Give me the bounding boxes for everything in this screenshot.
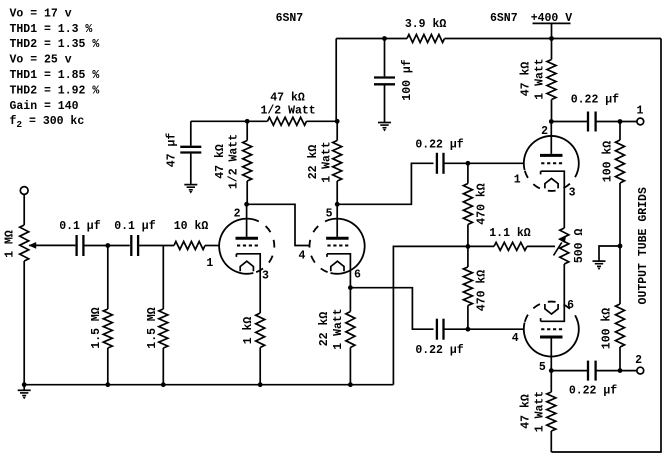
resistor 47 kΩ 1/2 Watt (decoupling) bbox=[260, 91, 315, 125]
svg-text:3.9 kΩ: 3.9 kΩ bbox=[405, 18, 447, 31]
node D junction (470k center) bbox=[466, 244, 471, 249]
tube V3 envelope bbox=[524, 136, 579, 191]
tube V3 plate bbox=[540, 122, 563, 156]
resistor 100 kΩ (upper) bbox=[602, 140, 625, 183]
svg-text:1: 1 bbox=[514, 174, 521, 187]
wire 22k cathode top bbox=[349, 288, 351, 312]
wire V4 plate load top bbox=[550, 371, 552, 392]
svg-text:100 kΩ: 100 kΩ bbox=[602, 141, 615, 183]
ground (input rail) bbox=[18, 385, 31, 400]
node pin 6 label V4 bbox=[567, 299, 574, 312]
ground (47 µf) bbox=[184, 154, 197, 194]
svg-text:Vo = 17 v: Vo = 17 v bbox=[10, 7, 72, 20]
wire V4 plate load bottom bbox=[550, 431, 552, 452]
svg-text:3: 3 bbox=[262, 270, 269, 283]
svg-text:THD2 = 1.92 %: THD2 = 1.92 % bbox=[10, 84, 100, 97]
wire 47k to B+ branch bbox=[307, 120, 338, 122]
tube V4 cathode bbox=[541, 264, 565, 321]
wire 1 kΩ to ground rail bbox=[259, 348, 261, 385]
capacitor 0.22 µf C3 bbox=[415, 138, 463, 173]
svg-text:1: 1 bbox=[637, 105, 644, 118]
resistor 22 kΩ 1 Watt (V2 plate load) bbox=[307, 141, 342, 183]
wire 47k to junction bbox=[247, 120, 267, 122]
wire 1.5 MΩ second to ground rail bbox=[162, 348, 164, 385]
svg-text:OUTPUT TUBE GRIDS: OUTPUT TUBE GRIDS bbox=[637, 187, 650, 304]
svg-text:0.22 µf: 0.22 µf bbox=[569, 385, 617, 398]
resistor 1.5 MΩ (second) bbox=[146, 307, 168, 349]
wire 100k upper top bbox=[619, 122, 621, 141]
svg-text:1 Watt: 1 Watt bbox=[321, 141, 334, 182]
node V3 plate junction bbox=[549, 119, 554, 124]
resistor 1.1 kΩ (hum balance feed) bbox=[489, 227, 531, 250]
wire V1 plate load top bbox=[246, 121, 248, 140]
wire 22k top bbox=[336, 121, 338, 140]
capacitor 100 µf bbox=[374, 39, 414, 101]
svg-text:4: 4 bbox=[298, 249, 305, 262]
svg-text:22 kΩ: 22 kΩ bbox=[307, 145, 320, 180]
node pin 4 label V2 bbox=[298, 249, 305, 262]
node C junction bbox=[466, 161, 471, 166]
node pin 6 label V2 bbox=[354, 269, 361, 282]
svg-text:0.1 µf: 0.1 µf bbox=[59, 220, 101, 233]
svg-text:0.22 µf: 0.22 µf bbox=[415, 138, 463, 151]
svg-text:470 kΩ: 470 kΩ bbox=[475, 270, 488, 312]
svg-text:1 Watt: 1 Watt bbox=[534, 58, 547, 99]
potentiometer 1 MΩ (volume control) bbox=[4, 225, 29, 261]
potentiometer 500 Ω bbox=[560, 228, 586, 264]
wire right B+ rail bbox=[551, 39, 661, 453]
node pot wiper arrow bbox=[29, 242, 37, 249]
node pin 2 label V3 bbox=[541, 125, 548, 138]
wire 1.1 kΩ to wiper bbox=[527, 245, 555, 247]
svg-text:100 µf: 100 µf bbox=[401, 59, 414, 101]
node V1 plate junction bbox=[244, 202, 249, 207]
resistor 3.9 kΩ (supply dropping) bbox=[405, 18, 447, 42]
svg-text:22 kΩ: 22 kΩ bbox=[318, 312, 331, 347]
node A junction dot bbox=[105, 243, 110, 248]
tube V4 plate bbox=[540, 337, 563, 371]
svg-text:47 kΩ: 47 kΩ bbox=[520, 394, 533, 429]
node ground rail dots bbox=[22, 382, 353, 387]
capacitor 0.22 µf C4 bbox=[415, 319, 463, 357]
svg-text:THD1 = 1.85 %: THD1 = 1.85 % bbox=[10, 69, 100, 82]
svg-text:6: 6 bbox=[567, 299, 574, 312]
svg-text:1.5 MΩ: 1.5 MΩ bbox=[90, 307, 103, 349]
svg-text:2: 2 bbox=[635, 354, 642, 367]
wire node D to 1.1 kΩ bbox=[468, 245, 494, 247]
node performance-spec text block bbox=[10, 7, 100, 130]
capacitor 0.1 µf C2 bbox=[114, 220, 156, 256]
wire top rail right bbox=[445, 38, 662, 40]
node output junction 2 bbox=[618, 368, 623, 373]
wire pot bottom to ground rail bbox=[23, 261, 25, 385]
capacitor 47 µf bbox=[166, 121, 202, 167]
svg-text:47 µf: 47 µf bbox=[166, 133, 179, 168]
tube V3 heater bbox=[545, 178, 558, 188]
svg-text:1.1 kΩ: 1.1 kΩ bbox=[489, 227, 531, 240]
wire input terminal to pot bbox=[23, 194, 25, 225]
node pin 3 label V1 bbox=[262, 270, 269, 283]
tube V1 grid (dashed) bbox=[237, 245, 258, 247]
svg-text:1.5 MΩ: 1.5 MΩ bbox=[146, 307, 159, 349]
node V4 plate junction bbox=[549, 368, 554, 373]
wire C6 to terminal 2 bbox=[596, 370, 637, 372]
wire C4 to node E bbox=[444, 328, 468, 330]
resistor 22 kΩ 1 Watt (V2 cathode) bbox=[318, 308, 355, 349]
wire V1 plate to V2 grid bbox=[247, 204, 310, 245]
node output junction 1 bbox=[618, 119, 623, 124]
wire C2 to node B bbox=[139, 245, 174, 247]
tube V1 heater bbox=[240, 261, 253, 271]
node 500 Ω wiper arrow bbox=[554, 235, 567, 255]
tube V1 cathode bbox=[236, 254, 260, 313]
svg-text:0.1 µf: 0.1 µf bbox=[114, 220, 156, 233]
wire 100k lower bottom bbox=[619, 347, 621, 371]
wire node B down to second 1.5 MΩ bbox=[162, 246, 164, 310]
svg-text:6SN7: 6SN7 bbox=[276, 12, 304, 25]
resistor 1.5 MΩ (first) bbox=[90, 307, 112, 349]
wire V3 plate load bottom bbox=[551, 100, 553, 122]
svg-text:2: 2 bbox=[234, 207, 241, 220]
tube V1 plate bbox=[236, 204, 259, 238]
node ground junction (100k center) bbox=[618, 244, 623, 249]
svg-text:47 kΩ: 47 kΩ bbox=[520, 62, 533, 97]
node pin 1 label V1 bbox=[206, 257, 213, 270]
wire top rail left bbox=[336, 38, 407, 40]
resistor 47 kΩ 1 Watt (V3 plate load) bbox=[520, 58, 556, 99]
svg-text:100 kΩ: 100 kΩ bbox=[601, 308, 614, 350]
resistor 47 kΩ 1/2 Watt (V1 plate load) bbox=[214, 134, 252, 189]
wire V4 plate to C6 bbox=[551, 370, 588, 372]
tube V2 envelope bbox=[309, 219, 364, 274]
node pin 1 label V3 bbox=[514, 174, 521, 187]
node +400 V junction bbox=[549, 36, 554, 41]
node input terminal bbox=[20, 187, 28, 195]
wire V2 cathode to C4 bbox=[350, 288, 433, 330]
svg-text:1/2 Watt: 1/2 Watt bbox=[260, 105, 315, 118]
svg-text:500 Ω: 500 Ω bbox=[573, 229, 586, 264]
wire V3 plate to C5 bbox=[551, 121, 588, 123]
svg-text:6: 6 bbox=[354, 269, 361, 282]
wire wiper to C1 bbox=[35, 244, 75, 246]
svg-text:THD1 = 1.3 %: THD1 = 1.3 % bbox=[10, 23, 93, 36]
svg-text:Vo = 25 v: Vo = 25 v bbox=[10, 54, 72, 67]
ground (100 µf) bbox=[378, 85, 391, 131]
svg-text:10 kΩ: 10 kΩ bbox=[174, 220, 209, 233]
wire C5 to terminal 1 bbox=[596, 121, 637, 123]
wire 470k upper bottom bbox=[467, 225, 469, 247]
node pin 5 label V4 bbox=[539, 361, 546, 374]
svg-text:6SN7: 6SN7 bbox=[490, 12, 518, 25]
svg-text:1 Watt: 1 Watt bbox=[332, 308, 345, 349]
node +400 V supply label bbox=[531, 12, 573, 25]
wire V1 plate load bottom bbox=[246, 181, 248, 204]
svg-text:470 kΩ: 470 kΩ bbox=[475, 183, 488, 225]
node terminal 2 bbox=[635, 354, 644, 374]
tube V2 heater bbox=[331, 261, 344, 271]
node OUTPUT TUBE GRIDS label bbox=[637, 187, 650, 304]
ground (output divider) bbox=[593, 246, 621, 270]
node terminal 1 bbox=[637, 105, 644, 125]
wire 470k upper top bbox=[467, 163, 469, 183]
wire 470k lower bottom bbox=[467, 306, 469, 330]
resistor 47 kΩ 1 Watt (V4 plate load) bbox=[520, 391, 556, 432]
tube V1 envelope bbox=[219, 219, 274, 274]
capacitor 0.22 µf C5 (output 1) bbox=[571, 94, 619, 132]
node V2 plate junction bbox=[335, 202, 340, 207]
node E junction bbox=[466, 327, 471, 332]
capacitor 0.1 µf C1 bbox=[59, 220, 101, 256]
wire V2 plate to C3 bbox=[337, 163, 433, 204]
wire 100k upper bottom bbox=[619, 183, 621, 246]
svg-text:1 Watt: 1 Watt bbox=[534, 391, 547, 432]
node pin 3 label V3 bbox=[569, 187, 576, 200]
svg-text:0.22 µf: 0.22 µf bbox=[571, 94, 619, 107]
wire node E to lower output grid bbox=[468, 328, 524, 330]
wire C3 to node C bbox=[444, 162, 468, 164]
svg-text:1 kΩ: 1 kΩ bbox=[242, 317, 255, 345]
svg-text:1/2 Watt: 1/2 Watt bbox=[228, 134, 241, 189]
node label 6SN7 (output pair) bbox=[490, 12, 518, 25]
resistor 10 kΩ grid stopper bbox=[174, 220, 209, 249]
wire 470k lower top bbox=[467, 246, 469, 267]
node label 6SN7 (driver twin triode) bbox=[276, 12, 304, 25]
node pin 4 label V4 bbox=[512, 332, 519, 345]
svg-text:1 MΩ: 1 MΩ bbox=[4, 230, 17, 258]
tube V4 grid (dashed) bbox=[541, 328, 562, 330]
tube V3 grid (dashed) bbox=[541, 162, 562, 164]
resistor 470 kΩ (lower grid leak) bbox=[463, 267, 488, 311]
svg-text:2: 2 bbox=[541, 125, 548, 138]
wire 10 kΩ to tube V1 grid pin 1 bbox=[205, 245, 219, 247]
wire 1.5 MΩ first to ground rail bbox=[107, 348, 109, 385]
svg-text:THD2 = 1.35 %: THD2 = 1.35 % bbox=[10, 38, 100, 51]
wire node C to upper output grid bbox=[468, 162, 524, 164]
svg-text:4: 4 bbox=[512, 332, 519, 345]
node pin 2 label V1 bbox=[234, 207, 241, 220]
svg-text:5: 5 bbox=[539, 361, 546, 374]
tube V4 heater bbox=[545, 304, 558, 314]
node junction 47k/22k bbox=[335, 119, 340, 124]
wire 100k lower top bbox=[619, 246, 621, 304]
wire junction to 47 µf bbox=[191, 120, 247, 122]
capacitor 0.22 µf C6 (output 2) bbox=[569, 361, 617, 398]
node V2 cathode junction bbox=[348, 285, 353, 290]
wire 22k cathode bottom bbox=[349, 348, 351, 385]
svg-text:0.22 µf: 0.22 µf bbox=[415, 344, 463, 357]
svg-text:Gain = 140: Gain = 140 bbox=[10, 100, 79, 113]
wire C1 to node A bbox=[85, 245, 130, 247]
svg-text:47 kΩ: 47 kΩ bbox=[214, 144, 227, 179]
tube V3 cathode bbox=[541, 171, 565, 228]
svg-text:47 kΩ: 47 kΩ bbox=[270, 91, 305, 104]
node pin 5 label V2 bbox=[326, 207, 333, 220]
wire V3 plate load top bbox=[551, 39, 553, 60]
resistor 470 kΩ (upper grid leak) bbox=[463, 183, 488, 225]
wire +400 V stub bbox=[551, 23, 553, 38]
wire node A down to R 1.5 MΩ bbox=[107, 246, 109, 310]
svg-text:1: 1 bbox=[206, 257, 213, 270]
tube V2 plate bbox=[326, 204, 349, 238]
node 100 µf junction bbox=[382, 36, 387, 41]
resistor 1 kΩ (V1 cathode) bbox=[242, 313, 265, 348]
node junction 47k/47k bbox=[245, 119, 250, 124]
wire node D to ground rail riser bbox=[393, 246, 468, 384]
wire 22k bottom bbox=[336, 181, 338, 204]
tube V4 envelope bbox=[524, 302, 579, 357]
svg-text:3: 3 bbox=[569, 187, 576, 200]
resistor 100 kΩ (lower) bbox=[601, 304, 625, 349]
svg-text:5: 5 bbox=[326, 207, 333, 220]
wire B+ riser bbox=[335, 39, 337, 122]
tube V2 cathode bbox=[327, 254, 350, 288]
wire bottom ground rail bbox=[24, 384, 393, 386]
tube V2 grid (dashed) bbox=[327, 245, 348, 247]
